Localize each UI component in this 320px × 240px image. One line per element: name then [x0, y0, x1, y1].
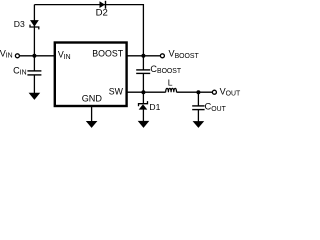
terminal VBOOST — [160, 54, 164, 58]
inductor L — [166, 88, 177, 92]
node junction VOUT/COUT — [196, 90, 200, 94]
svg-text:D3: D3 — [14, 19, 25, 29]
wire BOOST to CBOOST — [142, 56, 144, 70]
svg-text:BOOST: BOOST — [92, 49, 123, 59]
svg-text:GND: GND — [82, 94, 103, 104]
wire CBOOST to SW node — [142, 74, 144, 104]
wire BOOST pin — [127, 55, 161, 57]
wire CIN — [33, 56, 35, 71]
wire VIN terminal to IC — [19, 55, 54, 57]
wire COUT — [197, 92, 199, 106]
wire D3 vertical — [33, 5, 35, 56]
node junction BOOST/CBOOST — [141, 54, 145, 58]
wire CIN to ground — [33, 75, 35, 93]
wire GND pin — [91, 106, 93, 122]
wire D1 to ground — [142, 109, 144, 121]
terminal VOUT — [212, 90, 216, 94]
capacitor COUT — [192, 106, 204, 110]
diode D2 — [100, 1, 106, 9]
capacitor CBOOST — [136, 70, 150, 74]
ground (GND pin) — [86, 121, 98, 128]
ground (COUT) — [193, 121, 205, 128]
wire L to VOUT — [177, 91, 213, 93]
wire top rail — [34, 5, 143, 56]
svg-text:D2: D2 — [96, 8, 108, 19]
svg-text:D1: D1 — [149, 102, 160, 112]
op-amp U1 (regulator IC body) — [55, 43, 127, 107]
capacitor CIN — [27, 71, 41, 75]
terminal VIN — [15, 54, 19, 58]
diode D3 (Schottky) — [30, 20, 39, 29]
diode D1 (Schottky catch diode) — [139, 101, 148, 110]
wire COUT to ground — [197, 110, 199, 122]
node junction SW/D1/CBOOST — [141, 90, 145, 94]
wire SW pin — [127, 91, 166, 93]
svg-text:L: L — [168, 77, 173, 87]
ground (D1) — [138, 121, 150, 128]
ground (CIN) — [29, 93, 41, 100]
svg-text:SW: SW — [109, 86, 124, 96]
node junction VIN/CIN/D3 — [32, 54, 36, 58]
